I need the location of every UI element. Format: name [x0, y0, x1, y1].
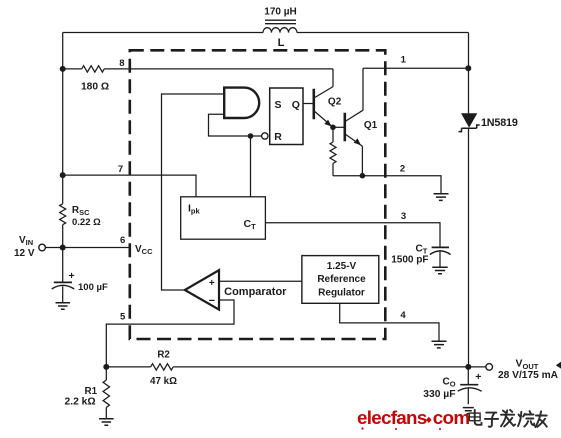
svg-text:47 kΩ: 47 kΩ: [150, 376, 177, 387]
svg-text:1500 pF: 1500 pF: [391, 254, 428, 265]
svg-text:1.25-V: 1.25-V: [327, 261, 357, 272]
svg-text:+: +: [69, 270, 75, 282]
svg-text:Q2: Q2: [328, 96, 342, 107]
svg-text:8: 8: [119, 58, 124, 69]
svg-text:28 V/175 mA: 28 V/175 mA: [498, 370, 559, 381]
svg-text:Q: Q: [292, 99, 300, 111]
svg-text:+: +: [475, 371, 481, 383]
svg-text:S: S: [274, 99, 281, 111]
svg-text:Regulator: Regulator: [318, 288, 365, 299]
svg-text:170 µH: 170 µH: [264, 7, 296, 18]
svg-text:+: +: [209, 278, 215, 289]
svg-text:4: 4: [400, 310, 406, 321]
svg-text:2: 2: [400, 164, 405, 175]
svg-text:elecfans: elecfans: [357, 407, 427, 428]
svg-text:100 µF: 100 µF: [78, 282, 108, 293]
svg-text:1N5819: 1N5819: [481, 117, 518, 129]
svg-text:12 V: 12 V: [14, 248, 35, 259]
svg-text:7: 7: [118, 164, 123, 175]
svg-text:Comparator: Comparator: [224, 286, 287, 298]
svg-text:R1: R1: [85, 386, 98, 397]
svg-text:2.2 kΩ: 2.2 kΩ: [65, 397, 96, 408]
svg-text:5: 5: [120, 312, 126, 323]
svg-text:180 Ω: 180 Ω: [81, 81, 109, 92]
svg-text:Reference: Reference: [317, 274, 366, 285]
svg-text:3: 3: [401, 211, 406, 222]
svg-text:L: L: [278, 37, 285, 49]
svg-text:6: 6: [120, 235, 125, 246]
svg-text:com: com: [433, 407, 470, 428]
svg-text:330 µF: 330 µF: [423, 389, 455, 400]
svg-text:R2: R2: [157, 350, 170, 361]
svg-text:Q1: Q1: [364, 120, 378, 131]
svg-text:−: −: [209, 295, 215, 307]
svg-text:1: 1: [401, 55, 407, 66]
svg-text:R: R: [274, 131, 282, 143]
svg-text:0.22 Ω: 0.22 Ω: [72, 217, 101, 228]
